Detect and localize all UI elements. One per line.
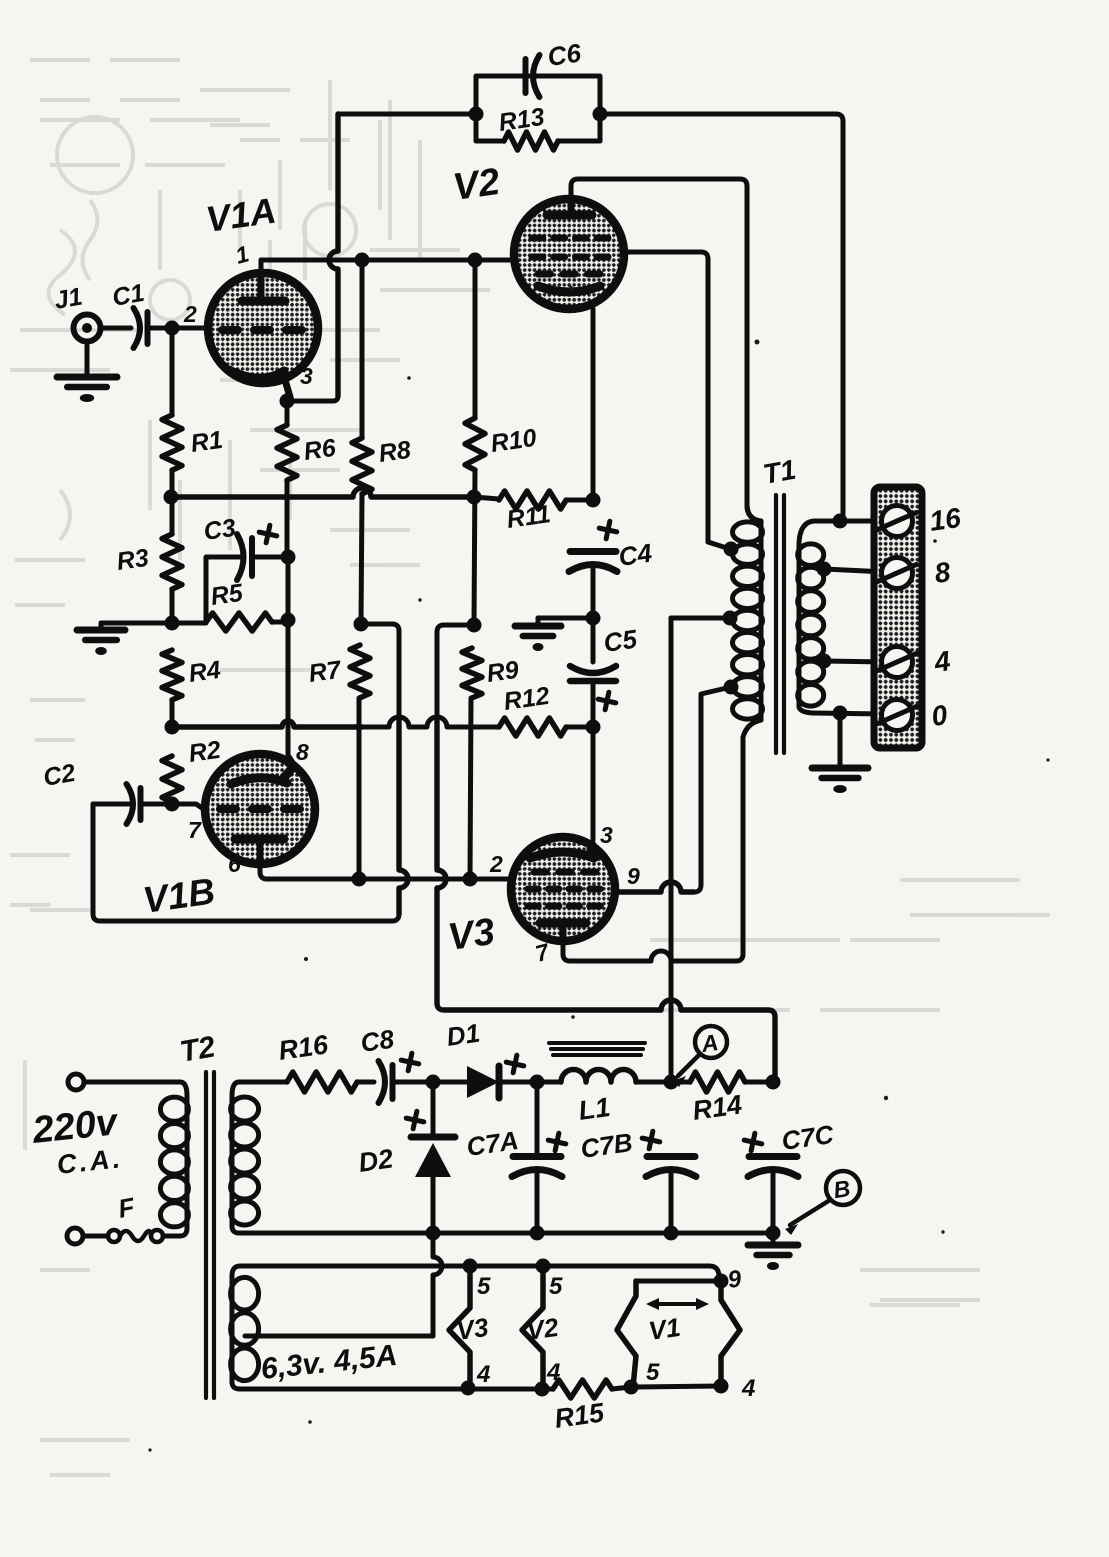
wire V1A cathode feedback riser (crosses plate line) [329, 114, 338, 396]
svg-text:V2: V2 [450, 161, 502, 209]
wire R3 bottom to ground line [170, 589, 175, 623]
svg-text:2: 2 [183, 301, 197, 327]
T2 primary bottom curve [180, 1228, 187, 1236]
node V1A cathode junction [280, 394, 295, 409]
V2 grid dashes g2 [532, 235, 543, 242]
node T1 center tap [723, 611, 738, 626]
wire 0 junction to ground [838, 713, 843, 768]
wire R12 right [566, 725, 593, 730]
wire C2 left to grid network [93, 802, 129, 807]
capacitor C6 [523, 59, 529, 93]
tube V1A [208, 273, 318, 383]
tube V1B [205, 754, 315, 864]
wire R1 to bus1 [170, 470, 175, 497]
V1B cathode bar [231, 766, 294, 784]
wire mid ground stub [538, 616, 593, 621]
node C7B on bus [664, 1226, 679, 1241]
wire R3 top [170, 497, 175, 534]
node C3 right [281, 550, 296, 565]
node bus1 R10 cross [467, 490, 482, 505]
node R8/R7 junction [354, 617, 369, 632]
diode D2 [411, 1134, 455, 1141]
resistor R5 [206, 613, 272, 631]
node V1 heater right bottom [714, 1379, 729, 1394]
wire C1 to V1A grid [150, 326, 207, 331]
wire D1 to L1 [499, 1080, 561, 1085]
wire heater bottom rail [240, 1387, 553, 1392]
heater V1 top bar [636, 1279, 721, 1284]
svg-text:C5: C5 [602, 624, 640, 658]
wire C7A top [535, 1082, 540, 1156]
capacitor C1 [145, 312, 151, 344]
T2 primary winding [160, 1097, 188, 1121]
wire V2 cathode down [591, 309, 596, 500]
wire secondary top to 16 terminal [814, 519, 886, 524]
wire B ground bus [239, 1231, 773, 1236]
wire V3 screen pin9 [615, 882, 694, 892]
node V1A grid junction [165, 321, 180, 336]
svg-text:3: 3 [300, 363, 313, 389]
node C6/R13 left junction [469, 107, 484, 122]
ground at T1 secondary [812, 765, 868, 772]
wire R8 top [360, 260, 365, 438]
svg-text:9: 9 [627, 863, 640, 889]
V3 grid dashes g2 [528, 903, 538, 910]
T1 secondary winding [798, 544, 824, 566]
svg-text:8: 8 [296, 739, 309, 765]
resistor R14 [690, 1072, 745, 1092]
wire R8/R7 junction to V1B grid network [361, 624, 399, 717]
tube V3 [511, 837, 615, 941]
resistor R12 [499, 718, 566, 736]
terminal strip [874, 487, 922, 748]
node feedback tap [833, 514, 848, 529]
node C5 bottom [586, 720, 601, 735]
resistor R15 [553, 1380, 612, 1398]
svg-text:V2: V2 [525, 1312, 561, 1346]
wire feedback top from V1A cathode riser to C6/R13 box [338, 112, 476, 117]
wire R10 top [473, 260, 478, 418]
T2 heater winding [231, 1277, 259, 1310]
V1A cathode bar [229, 370, 284, 378]
wire C5 to bus2 node [591, 681, 596, 727]
svg-text:R6: R6 [302, 434, 339, 466]
T2 HV secondary winding [231, 1097, 259, 1121]
resistor R9 [462, 648, 482, 698]
ground at R3/R5 [77, 627, 125, 634]
heater V1 right chevron [721, 1281, 740, 1386]
wire V1A cathode to R6 [285, 401, 290, 425]
V1A plate bar [242, 297, 285, 306]
svg-text:V3: V3 [445, 911, 497, 959]
T1 primary bottom curve [743, 720, 761, 737]
svg-text:R3: R3 [115, 544, 151, 576]
svg-text:R9: R9 [485, 656, 521, 688]
resistor R3 [162, 534, 182, 589]
V3 cathode bar top [530, 845, 594, 858]
wire R11 right [566, 498, 593, 503]
T1 secondary top curve [799, 521, 814, 543]
wire feedback to output transformer secondary [600, 114, 843, 519]
connector mains bottom [67, 1228, 83, 1244]
wire R10/R9 junction to B+ filter [437, 625, 474, 717]
capacitor C7A [513, 1153, 561, 1160]
wire V2 grid [475, 258, 514, 263]
node R9 bottom [463, 872, 478, 887]
V1B grid dashes [220, 805, 236, 813]
node heater V2 bottom [535, 1382, 550, 1397]
resistor R2 [162, 756, 182, 802]
node A junction [664, 1075, 679, 1090]
svg-text:R5: R5 [209, 579, 246, 611]
wire R6 to bus1 and down to V1B pin8 [285, 480, 290, 557]
connector J1 input jack [74, 315, 101, 342]
plus at C7C [742, 1131, 763, 1152]
svg-text:R8: R8 [377, 436, 413, 468]
plus at C7B [640, 1129, 661, 1150]
V2 grid dashes g1 [532, 254, 543, 261]
node 9 junction [714, 1274, 729, 1289]
wire R16 to C8 [357, 1080, 374, 1085]
plus at C4 [597, 519, 618, 540]
plus at D2 [404, 1109, 425, 1130]
V3 grid dashes g1 [528, 886, 538, 893]
T2 HV top curve [232, 1082, 239, 1096]
plus at C8 [399, 1051, 420, 1072]
terminal screw 16 [882, 506, 913, 537]
T1 primary winding [733, 522, 763, 542]
wire R4 bottom [170, 700, 175, 727]
wire ground line [101, 621, 206, 626]
wire R14 right [745, 1080, 773, 1085]
T2 heater bottom curve [232, 1382, 240, 1389]
diode D1 [467, 1066, 499, 1098]
node C7A on bus [530, 1226, 545, 1241]
scan specks [58, 257, 1049, 1451]
node ground line junction [165, 616, 180, 631]
V3 plate bar [540, 919, 586, 928]
svg-text:T2: T2 [177, 1030, 218, 1069]
svg-text:V1: V1 [647, 1312, 683, 1346]
terminal screw 8 [882, 558, 913, 589]
T2 HV bottom curve [232, 1226, 239, 1233]
T1 core [774, 495, 778, 753]
svg-text:R7: R7 [307, 656, 344, 688]
svg-text:C1: C1 [110, 279, 146, 312]
node bus2 left [165, 720, 180, 735]
wire HV to R16 [239, 1080, 287, 1085]
svg-text:3: 3 [600, 822, 613, 848]
wire C7A bottom [535, 1170, 540, 1233]
wire 4 ohm tap [824, 661, 886, 662]
resistor R16 [287, 1072, 357, 1092]
wire junction to V1B grid pin7 [172, 804, 208, 812]
capacitor C5 [570, 666, 616, 673]
wire C6/R13 box outline [476, 76, 600, 141]
wire C7C bottom [771, 1170, 776, 1233]
V3 grid dashes g3 [534, 869, 546, 876]
plus at C7A [546, 1131, 567, 1152]
V1B plate bar [235, 835, 284, 844]
svg-text:C4: C4 [617, 538, 655, 572]
svg-text:R4: R4 [187, 656, 223, 688]
heater V1 arrows [652, 1302, 703, 1306]
wire grid column [170, 328, 175, 415]
node R8 top [355, 253, 370, 268]
node R10/R9 junction [467, 618, 482, 633]
wire fuse to primary [163, 1234, 180, 1239]
node T1 screen tap top [724, 542, 739, 557]
node bus1 left [164, 490, 179, 505]
T1 secondary bottom curve [799, 707, 812, 713]
node heater V2 top [536, 1259, 551, 1274]
node V1B grid junction [165, 797, 180, 812]
wire C7B bottom [669, 1170, 674, 1233]
wire R15 to V1 heater [612, 1387, 631, 1389]
wire D2 bottom [431, 1177, 436, 1233]
wire R7 bottom to V3 grid line [357, 698, 362, 879]
node 4 ohm tap [817, 654, 832, 669]
wire R8 bottom [361, 494, 362, 624]
svg-text:C3: C3 [202, 514, 238, 546]
T1 primary top curve [747, 505, 761, 521]
wire V2 plate to T1 primary top [571, 179, 754, 519]
V2 plate bar [547, 211, 592, 220]
node R10 top [468, 253, 483, 268]
terminal screw 4 [882, 647, 913, 678]
capacitor C4 [570, 548, 616, 555]
wire V3 plate line [563, 938, 651, 961]
capacitor C7C [749, 1153, 797, 1160]
node 0 ground junction [833, 706, 848, 721]
svg-text:4: 4 [476, 1361, 490, 1388]
resistor R13 [504, 132, 558, 150]
svg-text:4: 4 [741, 1375, 755, 1402]
svg-text:5: 5 [646, 1359, 660, 1386]
wire C4 to mid junction [591, 565, 596, 618]
plus at C5 [596, 690, 617, 711]
wire heater center tap [245, 1334, 433, 1339]
wire C8 to D1 [395, 1080, 467, 1085]
node V1 heater left bottom [624, 1380, 639, 1395]
inductor L1 [561, 1070, 636, 1083]
wire R11 left [474, 497, 499, 499]
resistor R11 [499, 491, 566, 509]
fuse F [108, 1230, 120, 1242]
node R14 right junction [766, 1075, 781, 1090]
plus at C3 [257, 523, 278, 544]
node C7A top [530, 1075, 545, 1090]
wire J1 to C1 [100, 326, 131, 331]
capacitor C8 [390, 1065, 396, 1099]
svg-text:5: 5 [477, 1273, 491, 1300]
node heater V3 bottom [461, 1381, 476, 1396]
V2 cathode bar [538, 286, 600, 292]
svg-text:5: 5 [549, 1273, 563, 1300]
svg-text:R1: R1 [189, 426, 225, 458]
ground at J1 [57, 374, 117, 381]
V2 grid dashes g3 [538, 271, 550, 278]
wire C3 left plate elbow [206, 557, 240, 621]
heater V3 [449, 1266, 470, 1387]
ground at node B [748, 1242, 798, 1249]
node T1 screen tap bottom [724, 680, 739, 695]
wire 8 ohm tap [824, 569, 886, 572]
node A callout [695, 1026, 727, 1058]
wire mains top [84, 1080, 180, 1085]
plus at D1 [504, 1053, 525, 1074]
heater V2 [522, 1266, 543, 1388]
wire cathode column to V3 [591, 727, 596, 840]
svg-text:C2: C2 [41, 759, 77, 792]
wire R10 bottom [474, 470, 475, 625]
node B callout [826, 1171, 860, 1205]
svg-text:V3: V3 [455, 1312, 491, 1346]
capacitor C7B [647, 1153, 695, 1160]
svg-text:D1: D1 [445, 1018, 482, 1052]
node C4 top [586, 493, 601, 508]
ground at C4/C5 [515, 623, 561, 630]
node cathode mid ground [586, 611, 601, 626]
T2 heater top curve [232, 1266, 240, 1276]
wire bus1 [171, 488, 474, 497]
heater V1 left chevron [617, 1281, 636, 1387]
wire V1B plate to V3 grid line [260, 866, 511, 879]
svg-text:C8: C8 [359, 1024, 397, 1058]
svg-text:T1: T1 [761, 454, 799, 490]
wire bus2 [172, 721, 362, 727]
svg-text:R2: R2 [187, 736, 223, 768]
node heater V3 top [463, 1259, 478, 1274]
V1A grid dashes [222, 326, 238, 334]
node 8 ohm tap [817, 562, 832, 577]
capacitor C2 [138, 788, 144, 820]
connector mains top [68, 1074, 84, 1090]
node B junction [766, 1226, 781, 1241]
node D2 branch [426, 1075, 441, 1090]
wire V1 heater bottom [631, 1386, 721, 1387]
terminal screw 0 [882, 700, 913, 731]
svg-text:C6: C6 [546, 38, 584, 72]
node R5 right [281, 613, 296, 628]
svg-text:16: 16 [928, 502, 964, 537]
svg-text:D2: D2 [357, 1143, 395, 1178]
node C6/R13 right junction [593, 107, 608, 122]
wire C2 right [143, 802, 172, 807]
wire V2 screen to T1 tap [624, 252, 730, 549]
resistor R10 [465, 418, 485, 470]
node D2 on bus [426, 1226, 441, 1241]
resistor R8 [352, 438, 372, 494]
wire C3/R5 to V1B cathode column [254, 555, 288, 560]
T2 core [204, 1072, 208, 1398]
resistor R7 [350, 645, 370, 698]
wire D2 top [431, 1082, 436, 1137]
tube V2 [514, 199, 624, 309]
wire V1A plate to V2 grid [259, 260, 264, 278]
wire mid junction to C5 [591, 618, 596, 662]
wire J1 to ground [85, 342, 90, 377]
wire T1 center tap to B+ [671, 616, 730, 621]
wire heater top rail [240, 1264, 709, 1269]
svg-text:2: 2 [489, 851, 503, 877]
wire L1 to node A [636, 1080, 690, 1085]
capacitor C3 [249, 538, 255, 576]
T2 primary top curve [180, 1082, 187, 1096]
svg-text:J1: J1 [52, 283, 84, 315]
svg-text:7: 7 [188, 817, 202, 843]
wire R9 bottom to V3 grid line [470, 698, 471, 879]
node R7 bottom [352, 872, 367, 887]
wire mains bottom [83, 1234, 108, 1239]
resistor R1 [162, 415, 182, 470]
resistor R4 [162, 650, 182, 700]
resistor R6 [277, 425, 297, 480]
svg-text:L1: L1 [577, 1092, 612, 1126]
wire secondary bottom to 0 terminal [812, 713, 886, 714]
